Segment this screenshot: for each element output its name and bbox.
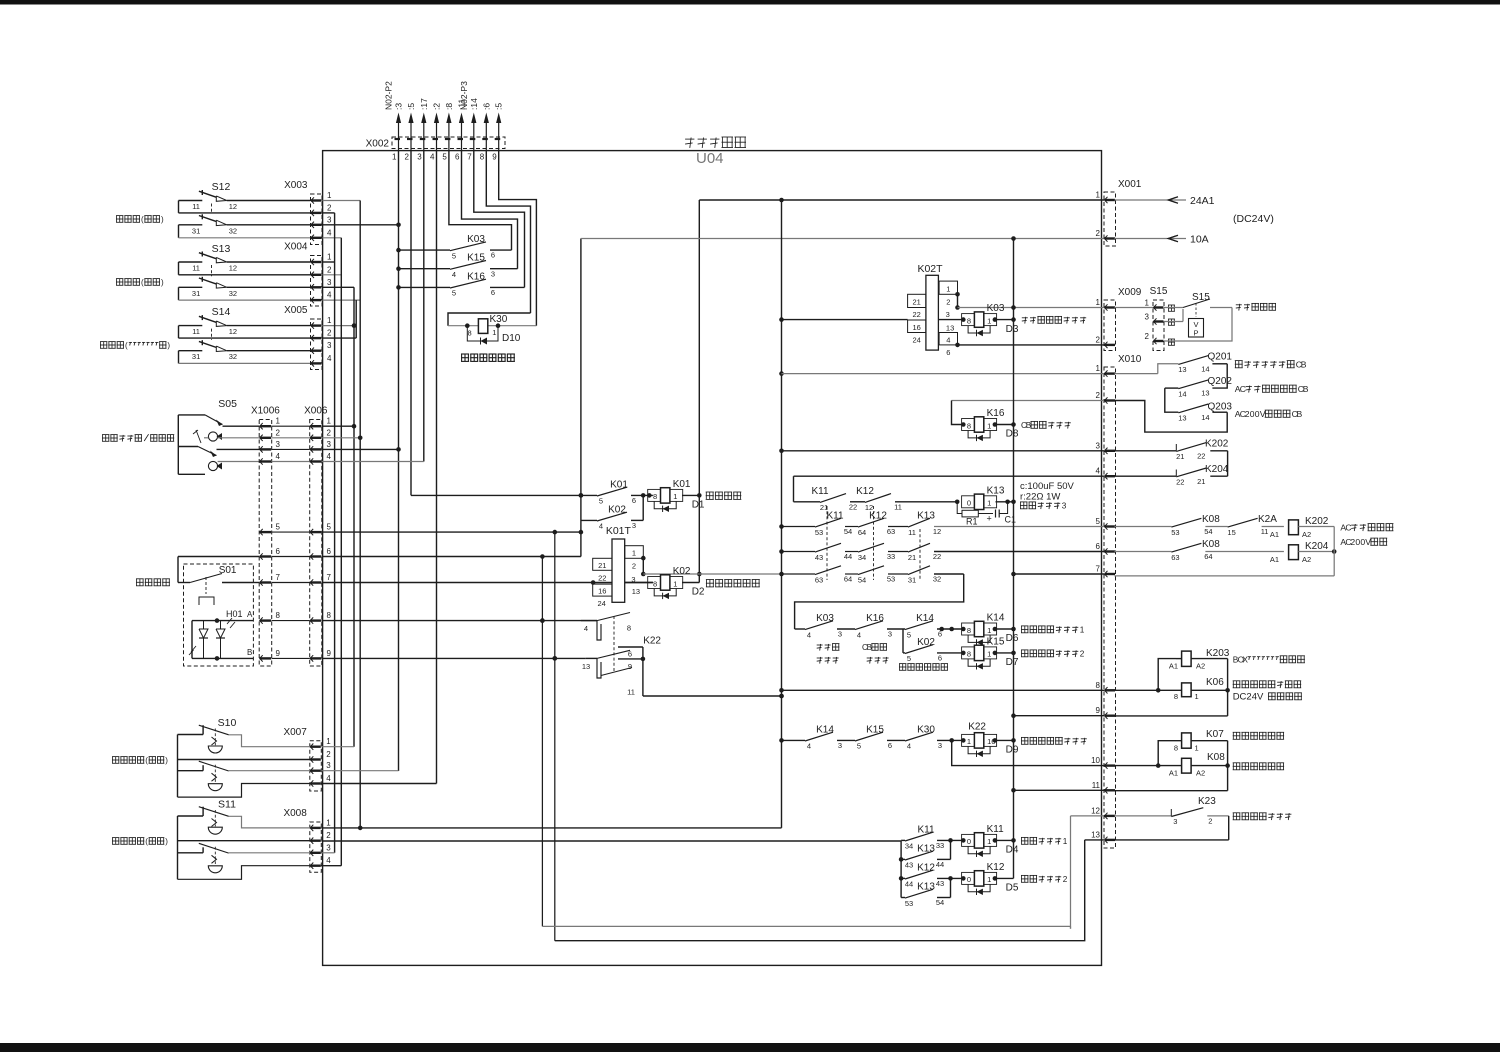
svg-text::5: :5 <box>406 103 416 110</box>
svg-text:12: 12 <box>229 327 237 336</box>
svg-text:21: 21 <box>598 561 606 570</box>
svg-text:K12: K12 <box>917 862 935 873</box>
svg-text:1: 1 <box>327 417 332 426</box>
svg-text:1: 1 <box>492 328 496 337</box>
svg-text:2: 2 <box>405 153 410 162</box>
svg-text:34: 34 <box>858 553 866 562</box>
svg-text:K23: K23 <box>1198 796 1216 807</box>
svg-text:0: 0 <box>967 837 971 846</box>
svg-text:(DC24V): (DC24V) <box>1233 213 1274 225</box>
svg-text:63: 63 <box>815 575 823 584</box>
svg-text:13: 13 <box>1178 414 1186 423</box>
svg-text:1: 1 <box>987 499 991 508</box>
svg-text::14: :14 <box>469 98 479 110</box>
svg-text:S13: S13 <box>212 243 231 255</box>
svg-text:8: 8 <box>1096 681 1101 690</box>
svg-text:5: 5 <box>452 251 456 260</box>
svg-text:6: 6 <box>938 654 942 663</box>
svg-text::17: :17 <box>419 98 429 110</box>
svg-text:22: 22 <box>1197 451 1205 460</box>
svg-text:22: 22 <box>933 552 941 561</box>
svg-text:14: 14 <box>1178 389 1186 398</box>
svg-text:33: 33 <box>936 841 944 850</box>
svg-text:9: 9 <box>276 649 281 658</box>
svg-text:1: 1 <box>1096 298 1101 307</box>
svg-text:S11: S11 <box>218 799 236 811</box>
svg-text:K01: K01 <box>673 479 691 490</box>
svg-text:0: 0 <box>967 499 971 508</box>
svg-text:K30: K30 <box>917 724 935 735</box>
svg-text:2: 2 <box>1145 332 1150 341</box>
svg-text:64: 64 <box>844 575 852 584</box>
svg-text:X001: X001 <box>1118 179 1142 190</box>
svg-text:9: 9 <box>628 662 632 671</box>
svg-text:K16: K16 <box>467 271 485 282</box>
svg-text:N02-P2: N02-P2 <box>384 81 394 110</box>
svg-text:A2: A2 <box>1302 530 1311 539</box>
svg-text:c:100uF 50V: c:100uF 50V <box>1020 481 1075 492</box>
svg-text:5: 5 <box>857 742 861 751</box>
svg-text:K11: K11 <box>987 824 1004 835</box>
svg-text:(: ( <box>141 278 144 287</box>
svg-text:8: 8 <box>967 626 971 635</box>
svg-text:1: 1 <box>987 626 991 635</box>
svg-text:K03: K03 <box>816 613 834 624</box>
svg-text:3: 3 <box>491 269 495 278</box>
svg-text:): ) <box>161 278 164 287</box>
svg-text:3: 3 <box>632 521 636 530</box>
svg-text:5: 5 <box>452 289 456 298</box>
svg-text:D10: D10 <box>502 333 521 344</box>
svg-text:13: 13 <box>1091 830 1100 839</box>
svg-text:5: 5 <box>907 654 911 663</box>
svg-text:r:22Ω 1W: r:22Ω 1W <box>1020 492 1060 503</box>
svg-text:44: 44 <box>844 552 852 561</box>
svg-text:(: ( <box>125 341 128 350</box>
svg-text:13: 13 <box>632 587 640 596</box>
svg-text:H01: H01 <box>226 609 243 619</box>
svg-text:X005: X005 <box>284 305 308 316</box>
svg-text:1: 1 <box>946 285 950 294</box>
svg-text:12: 12 <box>1091 806 1100 815</box>
svg-text:24A1: 24A1 <box>1190 195 1215 207</box>
svg-text:X1006: X1006 <box>251 406 280 417</box>
svg-text:5: 5 <box>907 630 911 639</box>
svg-text:3: 3 <box>1062 502 1067 511</box>
svg-text:D8: D8 <box>1006 429 1019 440</box>
svg-text:9: 9 <box>327 649 332 658</box>
svg-text:3: 3 <box>838 630 842 639</box>
svg-text:12: 12 <box>933 527 941 536</box>
svg-text:8: 8 <box>627 624 631 633</box>
svg-text:1: 1 <box>276 417 281 426</box>
svg-text:K03: K03 <box>987 303 1005 314</box>
svg-text:11: 11 <box>1092 781 1101 790</box>
svg-text:K02T: K02T <box>917 263 943 275</box>
svg-text:K14: K14 <box>916 613 934 624</box>
svg-text:43: 43 <box>936 879 944 888</box>
svg-text:1: 1 <box>327 253 332 262</box>
svg-text:0: 0 <box>967 875 971 884</box>
svg-text::5: :5 <box>494 103 504 110</box>
svg-text:S14: S14 <box>212 306 231 318</box>
svg-text:43: 43 <box>815 553 823 562</box>
svg-text:12: 12 <box>229 202 237 211</box>
svg-text:(: ( <box>141 215 144 224</box>
svg-text:2: 2 <box>327 265 332 274</box>
svg-text:K202: K202 <box>1205 439 1229 450</box>
svg-text:1: 1 <box>327 191 332 200</box>
svg-text:K15: K15 <box>866 724 884 735</box>
svg-text:X: X <box>1242 655 1248 665</box>
svg-text:13: 13 <box>1178 365 1186 374</box>
svg-text:31: 31 <box>908 575 916 584</box>
svg-text:33: 33 <box>887 552 895 561</box>
svg-text:S10: S10 <box>218 717 237 729</box>
svg-text:K22: K22 <box>968 721 986 732</box>
svg-text:3: 3 <box>946 310 950 319</box>
svg-text:A1: A1 <box>1270 530 1279 539</box>
svg-text:5: 5 <box>276 523 281 532</box>
svg-text:K13: K13 <box>917 843 935 854</box>
svg-text:3: 3 <box>1173 817 1177 826</box>
svg-text:3: 3 <box>838 741 842 750</box>
svg-text:13: 13 <box>1201 389 1209 398</box>
svg-text:8: 8 <box>653 492 657 501</box>
svg-text:K15: K15 <box>987 636 1005 647</box>
svg-text:8: 8 <box>967 650 971 659</box>
svg-text:22: 22 <box>598 574 606 583</box>
svg-text:K11: K11 <box>917 824 934 835</box>
svg-text:24: 24 <box>913 336 921 345</box>
svg-text:K15: K15 <box>467 253 485 264</box>
svg-text:4: 4 <box>907 742 911 751</box>
svg-text:D3: D3 <box>1006 324 1019 335</box>
svg-text:A1: A1 <box>1270 555 1279 564</box>
svg-text:DC24V: DC24V <box>1233 692 1264 703</box>
svg-text:8: 8 <box>1174 692 1178 701</box>
svg-text:6: 6 <box>628 650 632 659</box>
svg-text:21: 21 <box>1197 477 1205 486</box>
svg-text:K16: K16 <box>987 408 1005 419</box>
svg-text:1: 1 <box>987 316 991 325</box>
svg-text:K12: K12 <box>869 511 887 522</box>
svg-text:53: 53 <box>815 528 823 537</box>
svg-text:K11: K11 <box>811 486 828 497</box>
svg-text:4: 4 <box>327 228 332 237</box>
svg-text:14: 14 <box>1201 413 1209 422</box>
svg-text:13: 13 <box>582 662 590 671</box>
svg-text:4: 4 <box>807 742 811 751</box>
svg-text:7: 7 <box>1096 565 1101 574</box>
svg-text:8: 8 <box>327 611 332 620</box>
svg-text:3: 3 <box>417 153 422 162</box>
svg-text:11: 11 <box>908 528 916 537</box>
svg-text:): ) <box>161 215 164 224</box>
svg-text:5: 5 <box>1096 517 1101 526</box>
svg-text:1: 1 <box>673 492 677 501</box>
svg-text:7: 7 <box>467 153 472 162</box>
svg-text:1: 1 <box>987 421 991 430</box>
svg-text:3: 3 <box>327 278 332 287</box>
svg-text:4: 4 <box>452 270 456 279</box>
svg-text:5: 5 <box>327 523 332 532</box>
svg-text:1: 1 <box>987 650 991 659</box>
svg-text:2: 2 <box>326 750 331 759</box>
svg-text:K12: K12 <box>987 862 1005 873</box>
svg-text:1: 1 <box>326 737 331 746</box>
svg-text:1: 1 <box>987 875 991 884</box>
svg-text:2: 2 <box>632 561 636 570</box>
svg-text:5: 5 <box>599 497 603 506</box>
svg-text:2: 2 <box>1096 335 1101 344</box>
svg-text::3: :3 <box>394 103 404 110</box>
svg-text:K203: K203 <box>1206 648 1230 659</box>
svg-text:K13: K13 <box>987 485 1005 496</box>
svg-text:54: 54 <box>858 575 866 584</box>
svg-text:K02: K02 <box>608 504 626 515</box>
svg-text:54: 54 <box>1204 527 1212 536</box>
svg-text:8: 8 <box>1174 744 1178 753</box>
svg-text:Q201: Q201 <box>1208 352 1233 363</box>
svg-text:3: 3 <box>1145 313 1150 322</box>
svg-text:6: 6 <box>491 251 495 260</box>
svg-text:7: 7 <box>276 573 281 582</box>
svg-text:14: 14 <box>1201 364 1209 373</box>
svg-text:K22: K22 <box>643 636 661 647</box>
svg-text:3: 3 <box>327 215 332 224</box>
svg-text:D4: D4 <box>1006 845 1019 856</box>
svg-text:2: 2 <box>1096 391 1101 400</box>
svg-text:(: ( <box>145 837 148 846</box>
svg-text:C1: C1 <box>1005 515 1017 525</box>
svg-text:34: 34 <box>905 842 913 851</box>
svg-text:8: 8 <box>468 329 472 338</box>
svg-text:A2: A2 <box>1302 555 1311 564</box>
svg-text::8: :8 <box>444 103 454 110</box>
svg-text:6: 6 <box>632 496 636 505</box>
svg-text:K204: K204 <box>1205 464 1229 475</box>
svg-text:S01: S01 <box>219 565 237 576</box>
svg-text:4: 4 <box>327 452 332 461</box>
svg-text:K16: K16 <box>866 613 884 624</box>
svg-text:1: 1 <box>1195 744 1199 753</box>
svg-text:12: 12 <box>229 264 237 273</box>
svg-text:21: 21 <box>1176 452 1184 461</box>
svg-text:1: 1 <box>327 316 332 325</box>
svg-text:13: 13 <box>946 323 954 332</box>
svg-text:D9: D9 <box>1006 745 1019 756</box>
svg-text:X009: X009 <box>1118 287 1142 298</box>
svg-text:K08: K08 <box>1202 514 1220 525</box>
svg-text:11: 11 <box>1261 527 1269 536</box>
svg-text:3: 3 <box>1096 441 1101 450</box>
svg-text:(: ( <box>145 756 148 765</box>
svg-text:A: A <box>247 610 253 619</box>
svg-text:N02-P3: N02-P3 <box>459 81 469 110</box>
svg-text:): ) <box>165 756 168 765</box>
svg-text:54: 54 <box>844 527 852 536</box>
svg-text:2: 2 <box>327 428 332 437</box>
svg-text:32: 32 <box>933 575 941 584</box>
svg-text:+: + <box>987 514 992 524</box>
svg-text:1: 1 <box>326 818 331 827</box>
svg-text:K12: K12 <box>856 486 874 497</box>
svg-text:4: 4 <box>584 624 588 633</box>
svg-text:1: 1 <box>987 837 991 846</box>
svg-text:A1: A1 <box>1169 769 1178 778</box>
svg-text:K204: K204 <box>1305 541 1329 552</box>
svg-text:16: 16 <box>598 586 606 595</box>
svg-text:4: 4 <box>430 153 435 162</box>
svg-text:32: 32 <box>229 226 237 235</box>
svg-text:2: 2 <box>1080 650 1085 659</box>
svg-text:K07: K07 <box>1206 729 1224 740</box>
svg-text:21: 21 <box>913 298 921 307</box>
svg-text:K06: K06 <box>1206 677 1224 688</box>
svg-text:8: 8 <box>276 611 281 620</box>
svg-text:5: 5 <box>442 153 447 162</box>
svg-text:1: 1 <box>632 549 636 558</box>
svg-text:D5: D5 <box>1006 883 1019 894</box>
svg-text:8: 8 <box>480 153 485 162</box>
svg-text:64: 64 <box>858 528 866 537</box>
svg-text:4: 4 <box>276 452 281 461</box>
svg-text:10: 10 <box>1091 756 1100 765</box>
svg-text:R1: R1 <box>966 517 978 527</box>
svg-text:X004: X004 <box>284 242 308 253</box>
svg-text:K14: K14 <box>987 613 1005 624</box>
svg-text:1: 1 <box>1096 364 1101 373</box>
svg-text:B: B <box>867 643 872 652</box>
svg-text:S15: S15 <box>1150 286 1168 297</box>
svg-text:3: 3 <box>276 440 281 449</box>
svg-text:1: 1 <box>1195 692 1199 701</box>
svg-text:31: 31 <box>192 289 200 298</box>
svg-text::6: :6 <box>481 103 491 110</box>
svg-text:C: C <box>1345 523 1351 533</box>
svg-text:16: 16 <box>913 323 921 332</box>
svg-text:32: 32 <box>229 352 237 361</box>
svg-text:Q203: Q203 <box>1208 402 1233 413</box>
svg-text:44: 44 <box>936 860 944 869</box>
svg-text:X003: X003 <box>284 180 308 191</box>
svg-text:54: 54 <box>936 898 944 907</box>
svg-text:K08: K08 <box>1202 539 1220 550</box>
svg-text:43: 43 <box>905 861 913 870</box>
svg-text:8: 8 <box>653 579 657 588</box>
svg-text:24: 24 <box>598 599 606 608</box>
svg-text:2: 2 <box>1208 817 1212 826</box>
svg-text:2: 2 <box>276 428 281 437</box>
svg-text:1: 1 <box>1063 837 1068 846</box>
svg-text:C: C <box>1240 384 1246 394</box>
svg-text:11: 11 <box>627 688 635 697</box>
svg-text:D2: D2 <box>692 587 705 598</box>
svg-text:A1: A1 <box>1169 662 1178 671</box>
svg-text:K11: K11 <box>826 511 843 522</box>
svg-text:4: 4 <box>857 630 861 639</box>
svg-text:K13: K13 <box>917 511 935 522</box>
svg-text:3: 3 <box>938 741 942 750</box>
svg-text:K08: K08 <box>1207 752 1225 763</box>
svg-text:K13: K13 <box>917 882 935 893</box>
svg-text:4: 4 <box>326 856 331 865</box>
svg-text:2: 2 <box>326 831 331 840</box>
svg-text:1: 1 <box>392 153 397 162</box>
svg-text:6: 6 <box>276 547 281 556</box>
svg-text:8: 8 <box>967 421 971 430</box>
svg-text:6: 6 <box>946 348 950 357</box>
svg-text:6: 6 <box>327 547 332 556</box>
svg-text:11: 11 <box>192 264 200 273</box>
svg-text:): ) <box>167 341 170 350</box>
svg-text:X006: X006 <box>304 406 328 417</box>
svg-text:S05: S05 <box>218 398 237 410</box>
svg-text:2: 2 <box>1063 875 1068 884</box>
svg-text:22: 22 <box>849 502 857 511</box>
svg-text:44: 44 <box>905 880 913 889</box>
svg-text:63: 63 <box>887 527 895 536</box>
svg-text:U04: U04 <box>696 150 724 167</box>
svg-text:A2: A2 <box>1196 769 1205 778</box>
svg-text:K02: K02 <box>673 566 691 577</box>
svg-text:3: 3 <box>326 761 331 770</box>
svg-text:4: 4 <box>599 522 603 531</box>
svg-text::2: :2 <box>432 103 442 110</box>
svg-text:1: 1 <box>1145 299 1150 308</box>
svg-text:31: 31 <box>192 226 200 235</box>
svg-text:K01: K01 <box>610 479 628 490</box>
svg-text:32: 32 <box>229 289 237 298</box>
svg-text:K14: K14 <box>816 724 834 735</box>
svg-text:X010: X010 <box>1118 354 1142 365</box>
svg-text:Q202: Q202 <box>1208 376 1233 387</box>
svg-text:2: 2 <box>946 298 950 307</box>
svg-text:53: 53 <box>905 899 913 908</box>
svg-text:9: 9 <box>492 153 497 162</box>
svg-text:6: 6 <box>491 288 495 297</box>
svg-text:53: 53 <box>1171 528 1179 537</box>
svg-text:9: 9 <box>1096 706 1101 715</box>
svg-text:3: 3 <box>327 341 332 350</box>
svg-text:P: P <box>1193 329 1198 338</box>
svg-text:4: 4 <box>327 354 332 363</box>
svg-text:4: 4 <box>946 336 950 345</box>
svg-text:7: 7 <box>327 573 332 582</box>
svg-text:22: 22 <box>913 310 921 319</box>
svg-text:X008: X008 <box>283 808 307 819</box>
svg-text:K02: K02 <box>917 637 935 648</box>
svg-text:3: 3 <box>888 630 892 639</box>
svg-text:B: B <box>1301 360 1307 370</box>
svg-text:K30: K30 <box>490 314 508 325</box>
svg-text:6: 6 <box>888 741 892 750</box>
svg-text:2: 2 <box>327 329 332 338</box>
svg-text:X002: X002 <box>366 139 390 150</box>
svg-text:31: 31 <box>192 352 200 361</box>
svg-text:15: 15 <box>1227 528 1235 537</box>
svg-text:S12: S12 <box>212 181 231 193</box>
svg-text:63: 63 <box>1171 553 1179 562</box>
svg-text:B: B <box>247 648 252 657</box>
svg-text:1: 1 <box>967 737 971 746</box>
svg-text:2: 2 <box>1096 229 1101 238</box>
svg-text:4: 4 <box>326 774 331 783</box>
svg-text:1: 1 <box>1096 191 1101 200</box>
svg-text:B: B <box>1303 384 1309 394</box>
svg-text:4: 4 <box>807 630 811 639</box>
